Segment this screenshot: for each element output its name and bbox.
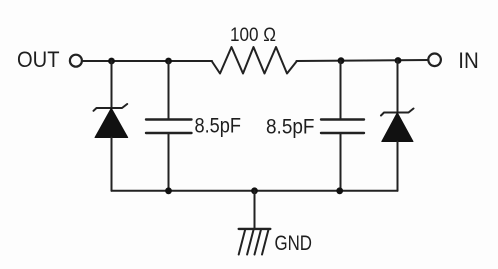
svg-text:8.5pF: 8.5pF — [195, 114, 242, 138]
wire top left — [82, 60, 212, 62]
junction dot top C2 branch — [338, 57, 345, 64]
ground symbol hatch 1 — [239, 230, 246, 255]
junction dot bottom C2 — [336, 187, 343, 194]
junction dot top C1 branch — [165, 58, 172, 65]
wire C1 top lead — [168, 61, 170, 120]
node OUT terminal — [70, 55, 82, 67]
ground symbol hatch 2 — [247, 230, 254, 255]
zener diode D2 cathode bar — [381, 109, 414, 116]
wire GND lead — [254, 191, 256, 229]
junction dot bottom C1 — [165, 187, 172, 194]
resistor R1 — [212, 47, 297, 74]
wire C2 bottom lead — [340, 133, 342, 191]
junction dot top D1 branch — [108, 58, 115, 65]
zener diode D1 triangle — [95, 108, 128, 137]
ground symbol hatch 3 — [255, 230, 262, 255]
wire D2 top lead — [397, 61, 399, 113]
zener diode D1 cathode bar — [94, 104, 128, 111]
junction dot top D2 branch — [395, 57, 402, 64]
wire D2 bottom lead — [397, 142, 399, 191]
capacitor C1 top plate — [146, 118, 192, 120]
svg-text:OUT: OUT — [17, 47, 60, 72]
capacitor C1 bottom plate — [146, 132, 192, 134]
wire top right — [297, 60, 429, 61]
svg-text:100 Ω: 100 Ω — [230, 24, 276, 46]
capacitor C2 bottom plate — [321, 132, 364, 134]
capacitor C2 top plate — [321, 118, 364, 120]
wire C1 bottom lead — [168, 133, 170, 191]
zener diode D2 triangle — [382, 113, 413, 142]
svg-text:8.5pF: 8.5pF — [266, 115, 315, 139]
wire D1 top lead — [111, 61, 113, 108]
wire D1 bottom lead — [111, 138, 113, 191]
svg-text:GND: GND — [275, 232, 313, 255]
wire bottom rail — [112, 190, 398, 192]
ground symbol hatch 4 — [262, 230, 269, 255]
node IN terminal — [428, 54, 441, 67]
wire C2 top lead — [340, 61, 342, 120]
svg-text:IN: IN — [458, 48, 479, 73]
junction dot bottom GND — [251, 187, 258, 194]
ground symbol bar — [239, 228, 271, 230]
